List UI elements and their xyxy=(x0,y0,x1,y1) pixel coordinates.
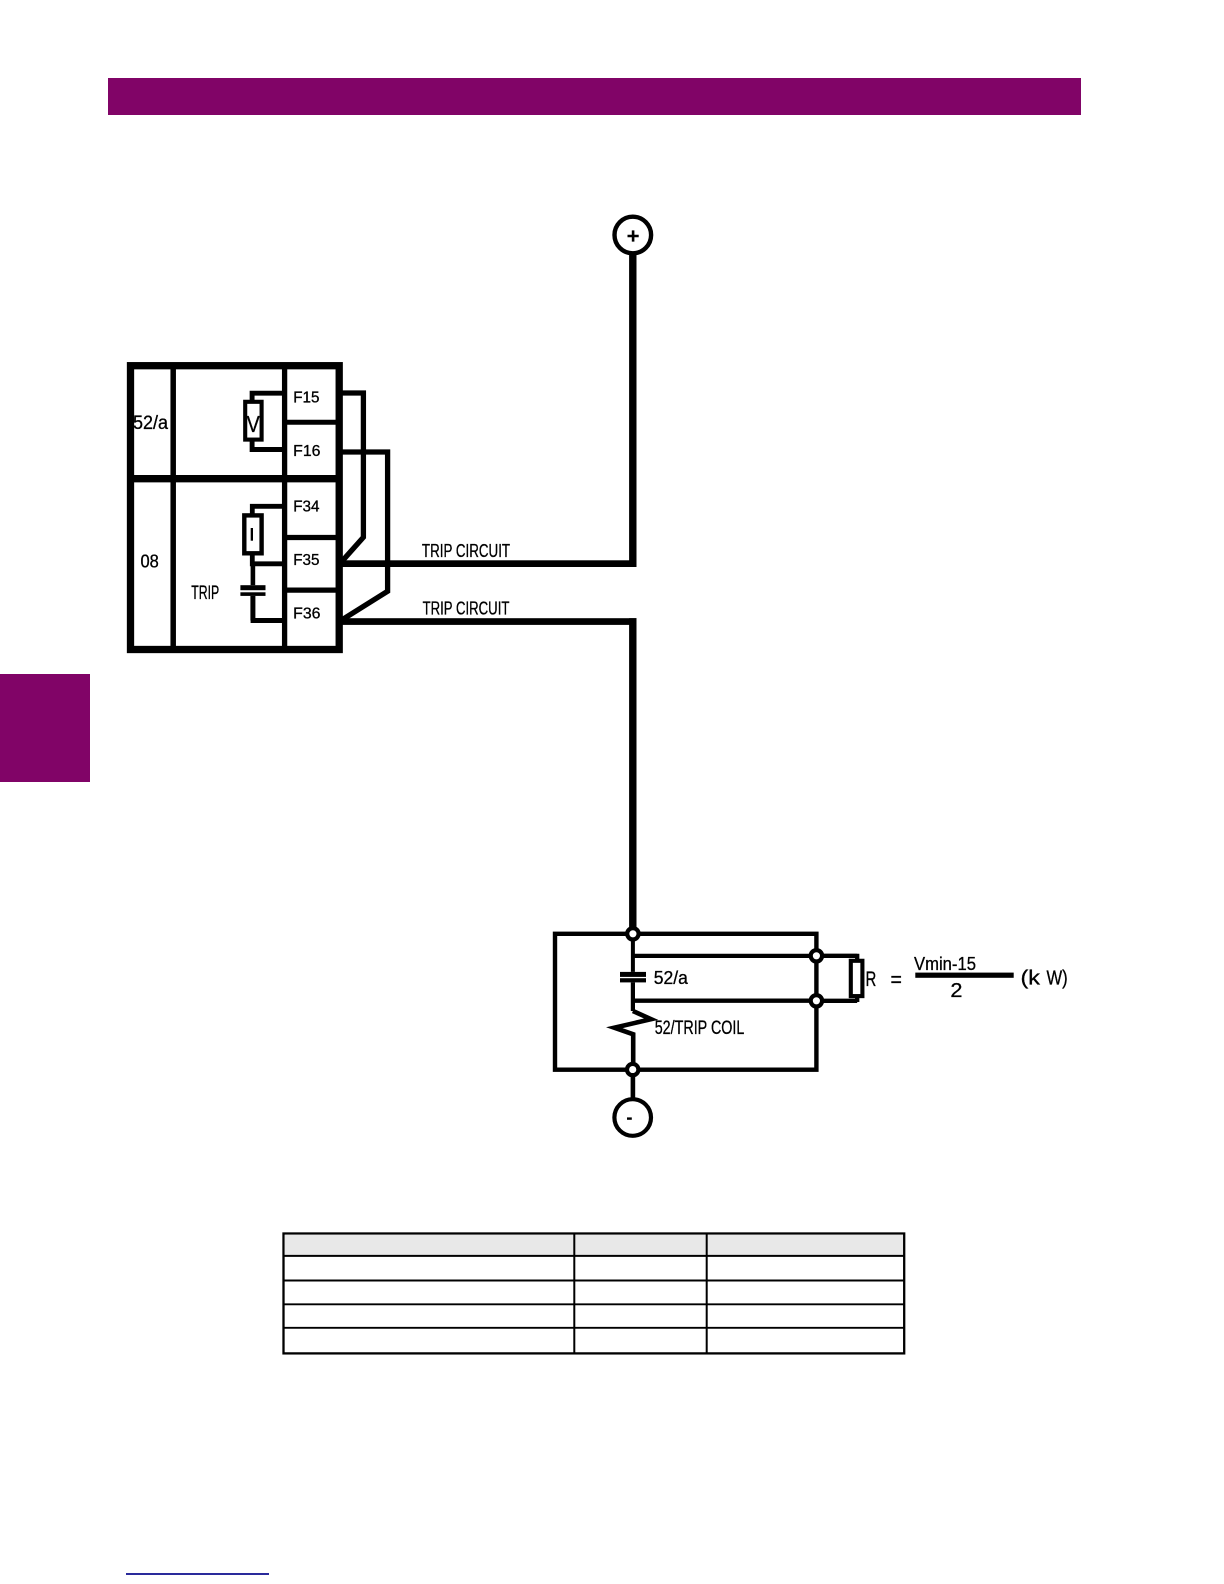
svg-text:52/a: 52/a xyxy=(654,967,689,988)
divider between terminals F15 and F16 xyxy=(285,420,340,425)
node junction at bottom of breaker block xyxy=(627,1064,638,1075)
wire inner bus down to 52/a contact xyxy=(631,938,635,972)
svg-text:R: R xyxy=(866,967,877,991)
svg-text:(k: (k xyxy=(1021,968,1042,990)
table column rule 2 xyxy=(706,1234,708,1354)
divider between terminals F34 and F35 xyxy=(285,535,340,540)
table row rule 3 xyxy=(284,1327,905,1329)
table row rule 2 xyxy=(284,1303,905,1305)
wire branch to resistor top xyxy=(633,954,817,958)
divider left edge of terminal column xyxy=(282,366,287,650)
node junction resistor top xyxy=(811,950,822,961)
relay block outline (D60 relay) xyxy=(131,366,340,650)
header purple banner bar xyxy=(108,78,1081,115)
node junction at top of breaker block xyxy=(627,928,638,939)
table header bottom rule xyxy=(284,1255,905,1257)
wire resistor bottom lead xyxy=(822,995,857,1002)
svg-text:F34: F34 xyxy=(293,499,320,516)
current monitor I element xyxy=(244,515,261,553)
wire capacitor bottom to terminal F36 xyxy=(251,596,285,621)
coil 52/TRIP COIL (zigzag) xyxy=(614,1011,651,1070)
resistor R xyxy=(851,961,863,996)
wire I bottom to terminal F35 xyxy=(252,553,284,564)
wire from + terminal down to trip circuit line 1 xyxy=(629,253,636,567)
svg-text:F15: F15 xyxy=(293,390,319,407)
terminal - (negative DC terminal) xyxy=(614,1099,651,1136)
wire I top to terminal F34 xyxy=(252,506,284,516)
footer rule (blue) xyxy=(126,1573,269,1575)
divider between 52/a element row and 08 trip row xyxy=(131,475,340,482)
voltage monitor V element xyxy=(245,402,261,440)
table row rule 1 xyxy=(284,1280,905,1282)
wire V bottom to terminal F16 xyxy=(252,440,285,450)
wire TRIP CIRCUIT 1 (heavy, F35 to vertical bus) xyxy=(342,560,637,567)
contact 52/a (breaker auxiliary contact) xyxy=(620,972,646,983)
svg-text:Vmin-15: Vmin-15 xyxy=(914,953,976,974)
terminal + (positive DC terminal) xyxy=(615,217,652,254)
svg-text:52/a: 52/a xyxy=(133,413,168,434)
table column rule 1 xyxy=(573,1234,575,1354)
svg-text:TRIP: TRIP xyxy=(191,583,219,604)
breaker block outline xyxy=(555,934,816,1070)
formula fraction bar xyxy=(915,973,1013,978)
svg-text:2: 2 xyxy=(950,980,962,1002)
wire 52/a contact to trip coil xyxy=(631,982,635,1011)
svg-text:TRIP CIRCUIT: TRIP CIRCUIT xyxy=(423,598,510,618)
wire branch to resistor bottom xyxy=(633,999,817,1003)
wire junction down to capacitor xyxy=(251,564,256,585)
wire from trip circuit line 2 down to 52 breaker block xyxy=(629,618,636,929)
wire breaker block to - terminal xyxy=(631,1073,636,1099)
divider between designator column and element area xyxy=(170,366,176,650)
wire from terminal F15 around to trip circuit 1 xyxy=(342,393,364,562)
divider between terminals F35 and F36 xyxy=(285,587,340,592)
wire V top to terminal F15 xyxy=(252,393,285,402)
table header row fill xyxy=(285,1235,903,1256)
svg-text:F36: F36 xyxy=(293,606,320,623)
svg-text:TRIP CIRCUIT: TRIP CIRCUIT xyxy=(422,541,510,561)
svg-text:V: V xyxy=(247,411,260,437)
wire from terminal F16 around to trip circuit 2 xyxy=(342,452,388,620)
svg-text:F35: F35 xyxy=(293,552,319,569)
svg-text:F16: F16 xyxy=(293,443,320,460)
wire TRIP CIRCUIT 2 (heavy, F36 to vertical bus) xyxy=(342,618,637,625)
svg-text:W): W) xyxy=(1047,968,1068,990)
node junction resistor bottom xyxy=(811,995,822,1006)
capacitor (trip coil supervision) xyxy=(240,585,265,596)
svg-text:52/TRIP COIL: 52/TRIP COIL xyxy=(655,1018,745,1039)
svg-text:08: 08 xyxy=(141,552,159,572)
table outline xyxy=(284,1234,905,1354)
chapter side tab (purple) xyxy=(0,674,90,782)
svg-text:=: = xyxy=(891,968,902,991)
wire resistor top lead xyxy=(822,954,857,962)
